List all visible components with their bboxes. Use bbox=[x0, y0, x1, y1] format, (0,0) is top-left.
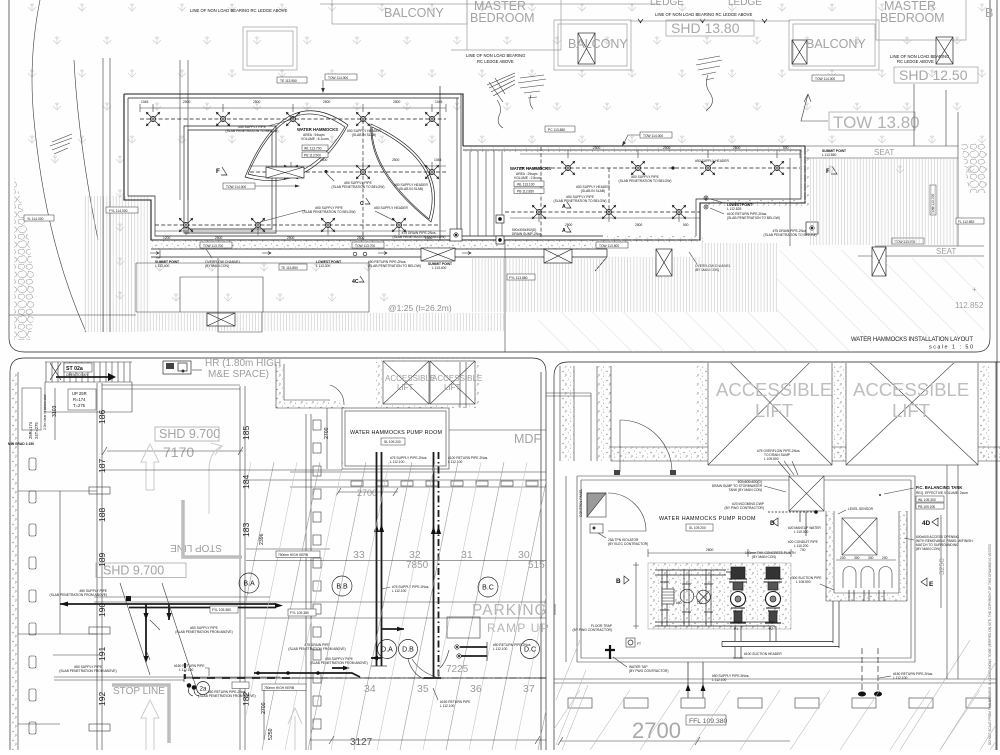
dim row middle bbox=[250, 162, 446, 170]
cobble band left bbox=[14, 175, 35, 340]
svg-text:D.B: D.B bbox=[402, 647, 414, 654]
svg-text:515: 515 bbox=[528, 560, 545, 571]
svg-text:L 112.100: L 112.100 bbox=[179, 668, 193, 672]
bellmouth arcs bbox=[843, 567, 892, 589]
svg-text:D.C: D.C bbox=[524, 647, 536, 654]
lowest point fittings right bbox=[704, 196, 708, 200]
svg-text:TOW 113.700: TOW 113.700 bbox=[203, 244, 223, 248]
control panel triangle bbox=[587, 493, 606, 517]
svg-text:(SLAB PENETRATION FROM ABOVE): (SLAB PENETRATION FROM ABOVE) bbox=[59, 669, 116, 673]
equipment pad speckled bbox=[648, 563, 791, 629]
svg-text:185: 185 bbox=[241, 426, 251, 440]
svg-text:BEDROOM: BEDROOM bbox=[880, 11, 945, 25]
svg-text:TOW 114.000: TOW 114.000 bbox=[328, 76, 348, 80]
ramp arrow 2 (outline, curved) bbox=[209, 443, 222, 514]
stair arrow thick bbox=[56, 376, 108, 378]
svg-text:(SLAB PENETRATION TO BELOW): (SLAB PENETRATION TO BELOW) bbox=[303, 210, 356, 214]
shaft x-box in balcony 2 bbox=[578, 33, 595, 64]
svg-text:B.C: B.C bbox=[482, 585, 494, 592]
svg-text:191: 191 bbox=[97, 647, 107, 661]
vertical lines through walkway bbox=[103, 58, 110, 332]
vertical line right of tank bbox=[946, 465, 948, 679]
SHD 9.700 boxed 2 bbox=[96, 563, 186, 578]
svg-text:SHD 9.700: SHD 9.700 bbox=[103, 564, 164, 578]
svg-text:37: 37 bbox=[523, 683, 535, 695]
svg-text:188: 188 bbox=[97, 508, 107, 522]
grid bubble D.B bbox=[399, 640, 418, 659]
svg-text:35: 35 bbox=[417, 683, 429, 695]
supply pipes leaving room bottom bbox=[688, 662, 703, 698]
svg-text:REQ. EFFECTIVE VOLUME: 2cum: REQ. EFFECTIVE VOLUME: 2cum bbox=[916, 491, 968, 495]
stair lower edge bbox=[45, 382, 132, 412]
dim line above equipment bbox=[648, 549, 791, 557]
dim vertical 3250 bbox=[940, 515, 942, 608]
svg-text:@1:25 (l=26.2m): @1:25 (l=26.2m) bbox=[388, 303, 452, 313]
svg-text:(SLAB PENETRATION TO BELOW): (SLAB PENETRATION TO BELOW) bbox=[727, 216, 780, 220]
connection manifold to pump bbox=[726, 572, 731, 580]
svg-text:LIFT: LIFT bbox=[755, 400, 793, 421]
svg-text:DO NOT SCALE FROM THIS DRAWING: DO NOT SCALE FROM THIS DRAWING. ALL DIME… bbox=[988, 543, 992, 745]
planter x-boxes below pool bbox=[544, 249, 572, 263]
drain sump with X bbox=[789, 476, 824, 511]
svg-text:300: 300 bbox=[854, 556, 860, 560]
stall ticks row mid bbox=[351, 481, 363, 486]
svg-text:#50 SUPPLY HEADER: #50 SUPPLY HEADER bbox=[695, 159, 729, 163]
sprinkler row right basin 2 bbox=[505, 211, 700, 213]
svg-text:25R=174: 25R=174 bbox=[28, 421, 33, 439]
water hammock leaf shape 1 bbox=[245, 111, 348, 181]
svg-text:STOP LINE: STOP LINE bbox=[113, 686, 165, 697]
flange ticks manifold bbox=[660, 582, 713, 612]
ramp arrow 1 (outline, up) bbox=[141, 443, 302, 750]
svg-text:2500: 2500 bbox=[215, 236, 223, 240]
svg-text:L 113.850: L 113.850 bbox=[822, 153, 836, 157]
parking ramp slope lines bbox=[170, 462, 826, 750]
stall separators bbox=[18, 491, 280, 724]
left landscape curve 1 bbox=[32, 0, 86, 332]
svg-text:(SLAB PENETRATION FROM ABOVE): (SLAB PENETRATION FROM ABOVE) bbox=[198, 694, 255, 698]
water hammock leaf shape 2 bbox=[371, 124, 435, 222]
room BALCONY 2 bbox=[554, 20, 631, 70]
slope scribble 2 bbox=[696, 56, 722, 80]
svg-text:P1: P1 bbox=[734, 627, 738, 631]
svg-text:ACCESSIBLE: ACCESSIBLE bbox=[385, 374, 435, 383]
boxed TOW 114.000 right bbox=[812, 75, 844, 81]
dividing walls speckle bbox=[696, 366, 708, 461]
svg-text:M&E SPACE): M&E SPACE) bbox=[208, 369, 269, 380]
suction header bbox=[655, 622, 775, 626]
ledge tick line bbox=[630, 20, 790, 22]
svg-text:B.A: B.A bbox=[243, 581, 255, 588]
ramp slab edge lines bbox=[246, 617, 546, 619]
svg-text:MDF: MDF bbox=[514, 432, 541, 446]
svg-text:TOW 114.000: TOW 114.000 bbox=[226, 185, 246, 189]
boxed PC 113.880 left bbox=[24, 215, 54, 221]
svg-text:2700: 2700 bbox=[632, 718, 681, 743]
svg-text:500: 500 bbox=[683, 223, 689, 227]
grid bubble D.A bbox=[378, 640, 397, 659]
svg-text:1200: 1200 bbox=[163, 236, 171, 240]
room BALCONY 3 bbox=[789, 20, 879, 70]
boxed TOW 113.700 labels bbox=[200, 242, 232, 248]
door arc top bbox=[620, 420, 672, 472]
svg-text:CD: CD bbox=[697, 601, 702, 605]
svg-text:WATER HAMMOCKS: WATER HAMMOCKS bbox=[297, 127, 338, 132]
svg-text:BALCONY: BALCONY bbox=[806, 37, 866, 51]
pool inner divider vertical bbox=[457, 94, 461, 237]
svg-text:SEAT: SEAT bbox=[936, 247, 956, 256]
svg-text:LINE OF NON LOAD BEARING RC LE: LINE OF NON LOAD BEARING RC LEDGE ABOVE bbox=[190, 8, 287, 13]
svg-text:WL 113.100: WL 113.100 bbox=[517, 183, 535, 187]
grid bubble B.C bbox=[478, 577, 498, 597]
svg-text:TOW 13.80: TOW 13.80 bbox=[833, 113, 920, 132]
svg-text:B: B bbox=[985, 6, 993, 20]
svg-text:1045: 1045 bbox=[434, 158, 442, 162]
boxed TE 113.950 bbox=[277, 77, 307, 83]
svg-text:32: 32 bbox=[409, 549, 421, 561]
svg-text:#80: #80 bbox=[676, 601, 682, 605]
svg-text:LINE OF NON LOAD BEARING: LINE OF NON LOAD BEARING bbox=[466, 53, 525, 58]
drops from pumps to header bbox=[735, 626, 776, 641]
svg-text:D.A: D.A bbox=[381, 647, 393, 654]
svg-text:A: A bbox=[562, 228, 566, 234]
dim row right basin bottom bbox=[510, 214, 700, 222]
svg-text:(SLAB PENETRATION TO BELOW): (SLAB PENETRATION TO BELOW) bbox=[554, 199, 607, 203]
svg-text:(SLAB IN SLAB): (SLAB IN SLAB) bbox=[581, 189, 605, 193]
svg-text:WATER HAMMOCKS: WATER HAMMOCKS bbox=[510, 166, 551, 171]
slope scribble 1 bbox=[487, 73, 515, 102]
svg-text:MIN GRAD 1:150: MIN GRAD 1:150 bbox=[8, 442, 34, 446]
pool outer wall (left basin) bbox=[124, 94, 607, 240]
SHD 13.80 boxed label bbox=[666, 20, 754, 36]
dim vertical left of room bbox=[565, 476, 567, 662]
svg-text:5250: 5250 bbox=[268, 728, 274, 740]
svg-text:L 112.100: L 112.100 bbox=[893, 676, 907, 680]
svg-text:#100 SUCTION HEADER: #100 SUCTION HEADER bbox=[744, 652, 782, 656]
svg-text:RAMP UP: RAMP UP bbox=[487, 621, 550, 635]
svg-text:2396: 2396 bbox=[259, 533, 265, 545]
svg-text:(SLAB PENETRATION FROM ABOVE): (SLAB PENETRATION FROM ABOVE) bbox=[288, 647, 345, 651]
leader arrow to TOW bbox=[801, 94, 828, 121]
cobble top right bbox=[961, 143, 987, 193]
ramp arrow 3 (outline, up, bottom) bbox=[141, 700, 159, 750]
svg-text:24T=275: 24T=275 bbox=[34, 422, 39, 439]
svg-text:(BY PWG CONTRACTOR): (BY PWG CONTRACTOR) bbox=[725, 506, 764, 510]
svg-text:DRAIN SUMP-2Nos.: DRAIN SUMP-2Nos. bbox=[512, 232, 542, 236]
column markers on wall A bbox=[89, 487, 110, 494]
svg-text:L 113.400: L 113.400 bbox=[432, 266, 446, 270]
svg-text:L 112.100: L 112.100 bbox=[392, 589, 406, 593]
svg-text:(BY MAIN CON): (BY MAIN CON) bbox=[752, 555, 776, 559]
svg-text:(SLAB PENETRATION TO BELOW): (SLAB PENETRATION TO BELOW) bbox=[368, 264, 421, 268]
svg-text:L 112.825: L 112.825 bbox=[727, 207, 741, 211]
svg-text:PB 112.850: PB 112.850 bbox=[517, 190, 534, 194]
svg-text:HR (1.80m HIGH: HR (1.80m HIGH bbox=[205, 358, 281, 369]
svg-text:LEDGE: LEDGE bbox=[728, 0, 762, 8]
lift shafts (bottom-left sheet) bbox=[376, 358, 480, 408]
supply pipes dark vertical bbox=[377, 452, 382, 666]
boxed FYL 114.000 bbox=[106, 207, 138, 213]
svg-text:VOLUME : 8.1cum: VOLUME : 8.1cum bbox=[301, 137, 329, 141]
svg-text:L 112.100: L 112.100 bbox=[712, 678, 726, 682]
svg-text:P.C. BALANCING TANK: P.C. BALANCING TANK bbox=[916, 485, 962, 490]
svg-text:B.B: B.B bbox=[336, 584, 348, 591]
planter box inside pool area (left) bbox=[188, 130, 272, 234]
pump P1 bbox=[729, 567, 747, 623]
boxed PC 113.880 bbox=[583, 365, 585, 367]
sprinkler row 2 (left basin middle) bbox=[250, 171, 446, 173]
parking stalls left column bbox=[29, 458, 36, 470]
svg-text:FL 112.852: FL 112.852 bbox=[958, 220, 974, 224]
svg-text:4D: 4D bbox=[922, 520, 931, 527]
svg-text:FYL 109.380: FYL 109.380 bbox=[212, 608, 231, 612]
svg-text:2500: 2500 bbox=[323, 100, 331, 104]
tree symbols grid (landscape) bbox=[28, 3, 986, 301]
svg-text:ST 02a: ST 02a bbox=[66, 366, 83, 372]
diagonal hatch plaza below pool bbox=[470, 257, 777, 312]
svg-text:(SLAB PENETRATION TO BELOW): (SLAB PENETRATION TO BELOW) bbox=[619, 179, 672, 183]
svg-text:CONTROL PANEL: CONTROL PANEL bbox=[579, 489, 583, 517]
svg-text:112.852: 112.852 bbox=[955, 301, 984, 310]
right basin: dim row top bbox=[520, 150, 800, 158]
boxed FL 112.852 bbox=[956, 218, 984, 224]
stair cross bbox=[50, 363, 61, 380]
boxed TOW 114.000 (top) bbox=[325, 74, 357, 80]
svg-text:2500: 2500 bbox=[287, 236, 295, 240]
boxed FYL 113.880 bbox=[507, 274, 535, 280]
svg-text:7850: 7850 bbox=[406, 560, 429, 571]
hatch strip on pool walls bbox=[151, 240, 607, 249]
slope scribble left bbox=[50, 134, 72, 154]
svg-text:(SLAB IN SLAB): (SLAB IN SLAB) bbox=[399, 187, 423, 191]
svg-text:L 113.400: L 113.400 bbox=[155, 264, 169, 268]
svg-text:LIFT: LIFT bbox=[892, 400, 930, 421]
vertical dashed connect right basin bbox=[541, 147, 609, 237]
faint construction diagonals left bbox=[120, 583, 198, 693]
ramp arrow 4 (outline, bottom 2) bbox=[288, 708, 302, 750]
svg-text:TOW 113.500: TOW 113.500 bbox=[599, 244, 619, 248]
svg-text:A: A bbox=[562, 204, 566, 210]
left margin diagonals bbox=[556, 640, 588, 750]
door arc pump room bbox=[608, 493, 646, 531]
FYL boxes bbox=[210, 606, 238, 613]
svg-text:7170: 7170 bbox=[163, 444, 194, 460]
grid bubble B.B bbox=[332, 576, 352, 596]
svg-text:FYL 109.380: FYL 109.380 bbox=[290, 611, 309, 615]
pump room walls (bottom-right) bbox=[577, 476, 915, 662]
svg-text:BEDROOM: BEDROOM bbox=[470, 11, 535, 25]
return run along kerb bbox=[254, 673, 360, 677]
room MASTER BEDROOM 1 bbox=[451, 0, 561, 50]
svg-text:200: 200 bbox=[840, 556, 846, 560]
TOW 13.80 boxed label bbox=[829, 112, 915, 130]
svg-text:186: 186 bbox=[97, 410, 107, 424]
svg-text:L 112.100: L 112.100 bbox=[390, 460, 404, 464]
sprinkler row 1 with supply header bbox=[140, 118, 446, 120]
svg-text:2500: 2500 bbox=[393, 100, 401, 104]
svg-text:FYL 113.880: FYL 113.880 bbox=[509, 276, 528, 280]
svg-text:(SLAB PENETRATION FROM ABOVE): (SLAB PENETRATION FROM ABOVE) bbox=[310, 661, 367, 665]
25A TPN isolator bbox=[590, 524, 603, 533]
svg-text:LEVEL SENSOR: LEVEL SENSOR bbox=[848, 507, 874, 511]
sheet border (bottom-right sheet) bbox=[554, 362, 1000, 750]
svg-text:SHD 13.80: SHD 13.80 bbox=[671, 20, 740, 36]
svg-text:2800: 2800 bbox=[706, 548, 714, 552]
grid bubble D.C bbox=[521, 640, 540, 659]
svg-text:T=275: T=275 bbox=[73, 403, 86, 408]
balancing tank enclosure bbox=[826, 511, 834, 601]
wall vertical grid line B bbox=[240, 386, 245, 750]
M&E equipment box bbox=[163, 361, 191, 374]
svg-text:SL 109.200: SL 109.200 bbox=[384, 440, 401, 444]
UP 25R box bbox=[68, 389, 96, 410]
horizontal faint lines upper mid bbox=[102, 469, 342, 471]
svg-text:ACCESSIBLE: ACCESSIBLE bbox=[432, 374, 482, 383]
svg-text:BALCONY: BALCONY bbox=[568, 37, 628, 51]
shaft x-box right bbox=[936, 37, 953, 64]
stop line thick grey L 1 bbox=[183, 500, 242, 557]
svg-text:B: B bbox=[616, 578, 621, 585]
dim line left of pad bbox=[633, 562, 639, 629]
svg-text:1045: 1045 bbox=[435, 100, 443, 104]
svg-text:FT: FT bbox=[637, 642, 641, 646]
svg-text:2500: 2500 bbox=[663, 146, 671, 150]
svg-text:(BY PWG CONTRACTOR): (BY PWG CONTRACTOR) bbox=[629, 669, 668, 673]
2a bubble bbox=[197, 682, 210, 695]
left wall speckle band bbox=[11, 372, 18, 750]
sheet border (bottom-left sheet) bbox=[10, 358, 546, 750]
MDF room walls (right sheet left edge) bbox=[546, 393, 591, 461]
svg-text:2500: 2500 bbox=[565, 223, 573, 227]
link steps between basins bbox=[470, 151, 502, 236]
svg-text:BALCONY: BALCONY bbox=[384, 6, 444, 20]
pump room (bottom-left) bbox=[342, 408, 449, 469]
floor trap bbox=[626, 638, 635, 647]
top wall band bbox=[611, 447, 1000, 461]
planter x-box below pool mid bbox=[421, 248, 455, 261]
SHD 12.50 boxed label bbox=[894, 67, 978, 83]
svg-text:LEDGE: LEDGE bbox=[650, 0, 684, 8]
stall ticks row bottom bbox=[568, 698, 592, 708]
750mm HIGH KERB boxes bbox=[262, 684, 306, 691]
svg-text:2500: 2500 bbox=[183, 100, 191, 104]
svg-text:SL 109.200: SL 109.200 bbox=[689, 526, 706, 530]
vertical supply dashed bbox=[362, 120, 364, 240]
svg-text:ACCESSIBLE: ACCESSIBLE bbox=[716, 379, 832, 400]
return pipes right bbox=[862, 648, 878, 695]
left walkway fine hatch bbox=[84, 196, 150, 332]
sprinkler row 3 (left basin bottom) bbox=[155, 225, 440, 234]
tank dim ticks bbox=[836, 559, 896, 561]
misc vertical walls right part bbox=[460, 362, 466, 408]
planter x-box tall right bbox=[872, 247, 886, 276]
top walls speckle (bottom-right) bbox=[560, 366, 574, 461]
svg-text:1045: 1045 bbox=[141, 100, 149, 104]
svg-text:31: 31 bbox=[461, 549, 473, 561]
lift shaft 2 bbox=[846, 340, 978, 465]
long horizontal plaza line bbox=[9, 314, 136, 316]
svg-text:L 112.100: L 112.100 bbox=[493, 647, 507, 651]
svg-text:(BY ELEC CONTRACTOR): (BY ELEC CONTRACTOR) bbox=[608, 542, 648, 546]
svg-text:(BY MAIN CON): (BY MAIN CON) bbox=[205, 264, 229, 268]
svg-text:(BY PWG CONTRACTOR): (BY PWG CONTRACTOR) bbox=[573, 628, 612, 632]
drain sump symbol left of right basin bbox=[496, 215, 504, 223]
svg-text:SHD 12.50: SHD 12.50 bbox=[899, 67, 968, 83]
svg-text:L 112.100: L 112.100 bbox=[448, 460, 462, 464]
svg-text:R=174: R=174 bbox=[73, 397, 86, 402]
kerb lines bottom bbox=[554, 679, 996, 683]
svg-text:LIFT: LIFT bbox=[444, 383, 461, 392]
svg-text:3127: 3127 bbox=[350, 737, 373, 748]
wall top horizontal bbox=[102, 385, 240, 389]
svg-text:2a: 2a bbox=[200, 687, 207, 693]
svg-text:2500: 2500 bbox=[593, 146, 601, 150]
ramp slope lines bottom-right bbox=[540, 640, 1000, 750]
terrace fine hatch right bbox=[809, 158, 957, 245]
svg-text:2500: 2500 bbox=[253, 100, 261, 104]
supply drop marker bbox=[671, 166, 674, 169]
pump P2 bbox=[764, 567, 782, 623]
svg-text:500: 500 bbox=[783, 146, 789, 150]
svg-text:PB 109.200: PB 109.200 bbox=[918, 505, 935, 509]
svg-text:36: 36 bbox=[470, 683, 482, 695]
svg-text:4C: 4C bbox=[352, 279, 359, 285]
boxed TOW 114.000 (left) bbox=[223, 183, 255, 189]
lift shaft 1 (bottom-right) bbox=[708, 340, 832, 465]
svg-text:L 109.500: L 109.500 bbox=[764, 457, 779, 461]
svg-text:ACCESSIBLE: ACCESSIBLE bbox=[853, 379, 969, 400]
main wall vertical grid line A bbox=[97, 383, 102, 750]
FFL 109.380 box bbox=[686, 715, 726, 725]
svg-text:(BY MAIN CON): (BY MAIN CON) bbox=[916, 547, 940, 551]
svg-text:(SLAB PENETRATION FROM ABOVE): (SLAB PENETRATION FROM ABOVE) bbox=[175, 630, 232, 634]
svg-text:187: 187 bbox=[97, 459, 107, 473]
plaza rect below pool bbox=[136, 263, 369, 312]
svg-text:3250: 3250 bbox=[937, 558, 946, 575]
svg-text:200: 200 bbox=[882, 556, 888, 560]
walls near lifts bbox=[276, 364, 284, 408]
svg-text:300: 300 bbox=[868, 556, 874, 560]
svg-text:F: F bbox=[216, 168, 220, 175]
svg-text:2500: 2500 bbox=[392, 158, 400, 162]
stair ST 02a bbox=[45, 362, 132, 382]
dark supply run horizontal bbox=[60, 603, 276, 605]
grid bubble B.A bbox=[239, 573, 259, 593]
svg-text:VOLUME : 2.8cum: VOLUME : 2.8cum bbox=[514, 176, 542, 180]
SHD 9.700 boxed 1 bbox=[155, 427, 219, 441]
svg-text:34: 34 bbox=[364, 683, 376, 695]
svg-text:2500: 2500 bbox=[357, 236, 365, 240]
svg-text:TE 113.850: TE 113.850 bbox=[281, 266, 298, 270]
svg-text:WL 113.700: WL 113.700 bbox=[304, 147, 322, 151]
svg-text:WATER HAMMOCKS PUMP ROOM: WATER HAMMOCKS PUMP ROOM bbox=[659, 516, 756, 522]
dim row bottom left basin bbox=[155, 227, 446, 235]
svg-text:2500: 2500 bbox=[320, 158, 328, 162]
dark supply arrows near D.A bbox=[382, 628, 404, 630]
svg-text:(SLAB PENETRATION TO BELOW): (SLAB PENETRATION TO BELOW) bbox=[393, 235, 446, 239]
sprinkler row right basin 1 bbox=[520, 167, 800, 169]
svg-text:TOW 114.000: TOW 114.000 bbox=[643, 134, 663, 138]
svg-text:RC LEDGE ABOVE: RC LEDGE ABOVE bbox=[477, 59, 514, 64]
svg-text:TANK (BY MAIN CON): TANK (BY MAIN CON) bbox=[729, 488, 762, 492]
tank square with X bbox=[842, 518, 877, 555]
room MASTER BEDROOM 2 bbox=[876, 0, 966, 40]
valves circles bbox=[662, 589, 674, 604]
pool right basin outline bbox=[463, 146, 805, 240]
svg-text:(SLAB PENETRATION TO BELOW): (SLAB PENETRATION TO BELOW) bbox=[332, 185, 385, 189]
svg-text:FYL 114.000: FYL 114.000 bbox=[109, 209, 128, 213]
horizontal kerb lines mid bbox=[246, 472, 546, 487]
